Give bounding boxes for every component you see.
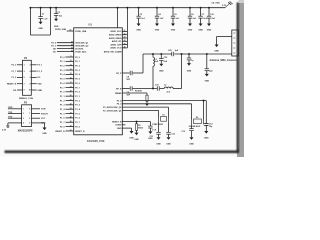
op-amp U1 CC2430 body (74, 23, 123, 135)
wire RF_N to L2 (160, 88, 165, 90)
op-amp U2 MAX3232 (8, 101, 49, 126)
node C23 tap (188, 53, 190, 55)
capacitor C8 series RF_P (127, 71, 133, 81)
wire U1 left port pins (55, 56, 85, 133)
node C22 tap (161, 53, 163, 55)
op-amp P1 debug connector (7, 57, 43, 95)
wire U1 top pin to rail (117, 8, 119, 28)
svg-text:RXD: RXD (8, 107, 13, 109)
page top-right corner light (239, 0, 244, 3)
svg-text:7: 7 (24, 83, 25, 85)
svg-text:15: 15 (70, 73, 72, 75)
node C6 tap (189, 7, 191, 9)
svg-text:Antenna_SMA_Connect: Antenna_SMA_Connect (210, 59, 237, 62)
svg-text:C4_VDD: C4_VDD (212, 1, 221, 4)
node riser top (181, 53, 183, 55)
wire XOSC32K_Q1 (122, 103, 191, 105)
svg-text:U1: U1 (89, 23, 93, 27)
svg-text:13: 13 (70, 65, 72, 67)
svg-text:2: 2 (23, 113, 24, 115)
page right margin (239, 0, 244, 157)
ground (204, 131, 209, 139)
wire XOSC_Q2 (122, 106, 168, 108)
wire RF_P pin (122, 72, 129, 74)
svg-text:XOSC32K_Q1: XOSC32K_Q1 (75, 43, 89, 45)
node C3 tap (138, 7, 140, 9)
svg-text:DVDD_ADC: DVDD_ADC (75, 50, 87, 53)
svg-text:R1OUT: R1OUT (41, 113, 49, 115)
capacitor C12 (166, 132, 175, 137)
ground (156, 137, 161, 145)
svg-text:7: 7 (29, 113, 30, 115)
ground (189, 137, 194, 145)
svg-text:MAX3232CPE: MAX3232CPE (18, 129, 33, 132)
svg-text:28: 28 (70, 130, 72, 132)
power +3.3V flag (212, 1, 233, 7)
svg-text:20: 20 (70, 95, 72, 97)
ground (214, 45, 219, 53)
svg-text:5: 5 (24, 77, 25, 79)
node L1 bottom (152, 88, 154, 90)
page shadow right (237, 3, 239, 153)
svg-text:3.3V: 3.3V (2, 130, 7, 132)
node C5 tap (172, 7, 174, 9)
wire U1 AVDD pins (109, 30, 127, 50)
svg-text:RESET_N: RESET_N (7, 84, 17, 86)
wire left loop vertical (29, 7, 31, 35)
wire X1 left riser (158, 110, 160, 116)
svg-text:GND: GND (148, 138, 153, 140)
ground (38, 22, 43, 31)
capacitor C10 (207, 8, 216, 24)
svg-text:GND: GND (37, 90, 42, 92)
op-amp J1 SMA connector body (232, 30, 239, 56)
power +3.3V flag U2 (2, 123, 22, 132)
svg-text:DGND: DGND (116, 125, 122, 127)
page shadow bottom (5, 150, 239, 153)
ground (42, 128, 47, 136)
svg-text:GND: GND (214, 50, 219, 52)
node rail junction AVDD bus (127, 7, 129, 9)
svg-text:25: 25 (70, 117, 72, 119)
wire X1 right riser (168, 107, 170, 116)
wire left loop bottom (30, 34, 50, 36)
svg-text:RTS: RTS (8, 117, 13, 119)
P1 part label (19, 98, 33, 100)
node C10 tap (208, 7, 210, 9)
capacitor C1 (38, 8, 48, 22)
svg-text:25: 25 (124, 43, 126, 45)
svg-text:32.768 KHZ: 32.768 KHZ (189, 126, 201, 128)
wire U1 upper-left pins (51, 40, 89, 53)
capacitor C9 series RF_N (127, 86, 133, 96)
svg-text:AVDD_SW_2.048M: AVDD_SW_2.048M (104, 50, 122, 53)
wire J1 shield (217, 37, 232, 45)
capacitor C14 (204, 101, 213, 132)
wire RBIAS (122, 89, 147, 93)
svg-text:GND: GND (166, 144, 171, 146)
node C4 tap (156, 7, 158, 9)
wire U1 pin DVDD_USB (55, 29, 87, 33)
ground (187, 63, 192, 72)
U1 inside label RF_N (116, 88, 122, 90)
svg-text:18: 18 (70, 86, 72, 88)
svg-text:26: 26 (70, 121, 72, 123)
svg-text:VCC: VCC (41, 118, 46, 120)
svg-text:P2_4/XOSC32K_Q2: P2_4/XOSC32K_Q2 (103, 106, 122, 109)
svg-text:GND: GND (207, 29, 212, 31)
svg-text:RESET_N: RESET_N (112, 121, 122, 123)
capacitor C7 (198, 8, 207, 24)
U1 inside label GND (117, 128, 122, 130)
node rail junction top pin (117, 7, 119, 9)
svg-text:GND: GND (129, 137, 134, 139)
resistor R2 43K (146, 93, 148, 103)
node rail-loop junction (30, 7, 52, 9)
svg-text:11: 11 (70, 56, 72, 58)
U1 inside label RBIAS (115, 92, 122, 95)
wire X2 left riser (191, 104, 193, 119)
svg-text:RF_N: RF_N (116, 88, 122, 90)
svg-text:9: 9 (24, 90, 25, 92)
wire XOSC_Q1 (122, 109, 158, 111)
ground (136, 24, 141, 32)
svg-text:GND: GND (188, 29, 193, 31)
wire RF_N pin (122, 88, 129, 90)
svg-text:P2_3/XOSC32K_Q1: P2_3/XOSC32K_Q1 (103, 111, 122, 113)
svg-text:GND: GND (155, 29, 160, 31)
resistor R1 56K (135, 122, 143, 133)
svg-text:8: 8 (29, 109, 30, 111)
svg-text:GND: GND (42, 133, 47, 135)
svg-text:AVDD_SOC: AVDD_SOC (110, 30, 122, 33)
U1 inside label AVDD_SW (104, 50, 122, 53)
svg-text:2: 2 (30, 65, 31, 67)
svg-text:RESET_N: RESET_N (75, 131, 85, 133)
svg-text:27: 27 (70, 125, 72, 127)
svg-text:GND: GND (198, 29, 203, 31)
svg-text:6: 6 (29, 118, 30, 120)
svg-text:8: 8 (30, 83, 31, 85)
svg-text:GND: GND (136, 29, 141, 31)
svg-text:5: 5 (29, 123, 30, 125)
svg-text:GND: GND (187, 70, 192, 72)
capacitor C13 (181, 128, 193, 137)
antenna net label (210, 59, 237, 62)
svg-text:GND: GND (171, 29, 176, 31)
crystal X2 32.768kHz (189, 117, 204, 128)
svg-text:T1IN: T1IN (41, 109, 46, 111)
crystal X1 32MHz (155, 114, 169, 126)
wire left loop right vertical (49, 8, 51, 35)
svg-text:GND: GND (156, 144, 161, 146)
svg-text:DEBUG_CON: DEBUG_CON (19, 98, 33, 100)
node L1 top (152, 53, 154, 55)
svg-text:1: 1 (24, 65, 25, 67)
svg-text:26: 26 (124, 47, 126, 49)
svg-text:AVDD_RREG: AVDD_RREG (109, 34, 122, 37)
svg-text:RF_P: RF_P (116, 73, 122, 75)
wire AVDD bus (126, 8, 128, 48)
capacitor C41 series on node rail (168, 49, 179, 56)
wire balun left vertical (142, 54, 144, 73)
svg-text:RBIAS: RBIAS (115, 92, 122, 95)
wire L2 to riser (173, 88, 182, 90)
svg-text:AVDD_CHP: AVDD_CHP (111, 43, 123, 46)
U1 inside label RESET_N (112, 121, 122, 123)
U1 inside label XOSC (116, 125, 122, 127)
svg-text:AVDD_IF1: AVDD_IF1 (112, 40, 122, 43)
svg-text:GND: GND (159, 71, 164, 73)
svg-text:21: 21 (124, 30, 126, 32)
wire RF_N middle (133, 88, 158, 90)
svg-text:19: 19 (70, 91, 72, 93)
svg-text:RESET_N: RESET_N (55, 131, 65, 133)
wire balun right riser (181, 54, 183, 89)
svg-text:DVDD_USB: DVDD_USB (55, 29, 67, 31)
capacitor C4 (155, 8, 164, 24)
svg-text:GND: GND (189, 144, 194, 146)
capacitor C3 (136, 8, 145, 24)
U1 part label (87, 139, 105, 143)
svg-text:GND: GND (54, 26, 59, 28)
ground (159, 64, 164, 73)
wire node rail right (174, 53, 231, 55)
capacitor C15 (148, 122, 157, 132)
node C24 tap (206, 53, 208, 55)
svg-text:22: 22 (124, 33, 126, 35)
capacitor C23 (187, 54, 195, 63)
capacitor C24 (205, 54, 214, 74)
ground (54, 19, 59, 29)
svg-text:3.3V: 3.3V (222, 5, 227, 7)
svg-text:GND: GND (204, 137, 209, 139)
ground (205, 74, 210, 83)
svg-text:TXD: TXD (8, 112, 13, 114)
capacitor C6 (188, 8, 197, 24)
capacitor C21 series RF_N (155, 85, 160, 91)
svg-text:4: 4 (30, 70, 31, 73)
ground (155, 24, 160, 32)
node R1 tap (136, 121, 138, 123)
svg-text:6: 6 (30, 77, 31, 79)
svg-text:32 MHZ: 32 MHZ (155, 124, 163, 126)
wire U1 GND pin (122, 128, 131, 131)
svg-text:CC2430_F64: CC2430_F64 (87, 139, 105, 143)
wire RF_P to balun (133, 72, 143, 74)
wire XOSC32K_Q2 (122, 100, 206, 102)
wire X2 right riser (203, 101, 205, 119)
ground (171, 24, 176, 32)
svg-text:21: 21 (70, 99, 72, 101)
page background (0, 0, 244, 157)
svg-text:12: 12 (70, 60, 72, 62)
wire RF node rail (143, 53, 172, 55)
svg-text:GND: GND (38, 28, 43, 30)
capacitor C22 (159, 54, 168, 64)
wire RESET_N net (122, 121, 150, 123)
svg-text:10: 10 (29, 90, 31, 92)
node C7 tap (200, 7, 202, 9)
ground (198, 24, 203, 32)
wire VDD rail (30, 7, 225, 9)
svg-text:VDD: VDD (37, 84, 42, 86)
ground (148, 131, 153, 139)
U2 part label (18, 129, 33, 132)
capacitor C11 (149, 132, 160, 138)
svg-text:3: 3 (23, 118, 24, 120)
node C2 tap (55, 7, 57, 9)
svg-text:10: 10 (70, 29, 72, 31)
svg-text:R2 43K: R2 43K (135, 89, 142, 92)
capacitor C5 (171, 8, 180, 24)
page corner bottom-right (237, 149, 244, 157)
svg-text:16: 16 (70, 78, 72, 80)
ground (207, 24, 212, 32)
svg-text:XOSC32K_Q2: XOSC32K_Q2 (75, 46, 89, 48)
svg-text:GND: GND (205, 81, 210, 83)
ground (134, 133, 139, 141)
svg-text:1: 1 (23, 109, 24, 111)
svg-text:DVDD_USB: DVDD_USB (75, 31, 87, 33)
inductor L2 2n2 (164, 85, 173, 94)
svg-text:GND: GND (134, 139, 139, 141)
wire U2 gnd stub (40, 123, 45, 128)
ground (188, 24, 193, 32)
svg-text:AVDD_DREG: AVDD_DREG (109, 37, 122, 40)
U1 inside label RF_P (116, 73, 122, 75)
inductor L1 shunt (153, 54, 159, 89)
U1 inside label XOSC rows (103, 99, 122, 112)
svg-text:AVDD_VCO: AVDD_VCO (110, 47, 121, 50)
svg-text:22: 22 (70, 104, 72, 106)
wire X1 right down (168, 122, 170, 132)
svg-text:17: 17 (70, 82, 72, 84)
svg-text:4: 4 (23, 122, 24, 125)
svg-text:DCOUPL: DCOUPL (75, 48, 84, 50)
node X2 right riser tap (203, 100, 205, 102)
svg-text:23: 23 (124, 37, 126, 39)
ground (145, 103, 149, 106)
wire X2 left down (191, 124, 193, 128)
capacitor C2 (54, 8, 63, 19)
wire U1 DGND pin (122, 124, 125, 126)
ground (129, 131, 134, 139)
svg-text:3: 3 (24, 71, 25, 73)
svg-text:GND: GND (117, 128, 122, 130)
ground (166, 137, 171, 145)
wire X1 left down (158, 122, 160, 132)
svg-text:23: 23 (70, 108, 72, 110)
node C1 tap (40, 7, 42, 9)
